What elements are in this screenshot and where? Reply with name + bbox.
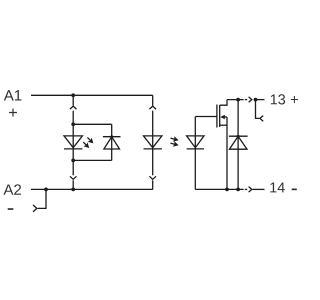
junction dot A2/left branch	[71, 188, 75, 192]
plug contact chevron (A2 jumper)	[33, 205, 37, 212]
LED indicator triangle	[144, 136, 162, 148]
wire A1 horizontal	[31, 94, 153, 96]
MOSFET body link	[225, 116, 228, 118]
male pin dash 13	[245, 99, 247, 101]
diode reverse-protection cathode bar	[103, 136, 121, 138]
junction dot LED top	[71, 122, 75, 126]
dot diode apex	[110, 135, 113, 138]
polarity label + (A1)	[9, 109, 17, 117]
wire terminal 14 stub	[252, 188, 264, 190]
plug contact chevron (mid branch top)	[149, 106, 156, 109]
terminal label A2	[3, 184, 21, 194]
junction dot LED bottom	[71, 159, 75, 163]
photodiode triangle	[187, 136, 204, 148]
polarity label - (A2)	[8, 208, 14, 210]
plug contact chevron (left branch top)	[70, 106, 77, 109]
wire terminal 13 stub	[256, 99, 265, 101]
LED input emission arrow upper	[85, 135, 95, 145]
plug contact chevron (mid branch bottom)	[149, 176, 156, 179]
wire source down	[226, 117, 228, 189]
optocoupler light arrow upper	[170, 135, 180, 143]
junction dot A2 hook	[44, 188, 48, 192]
wire left branch middle	[72, 111, 74, 176]
wire parallel box top rail	[73, 123, 112, 125]
junction dot source/bottom rail	[225, 188, 229, 192]
wire A2 horizontal	[31, 188, 153, 190]
wire mid branch lower corner	[152, 180, 154, 189]
MOSFET drain lead	[220, 100, 227, 106]
junction dot diode/bottom rail	[236, 188, 240, 192]
photodiode branch vertical	[194, 117, 196, 190]
terminal label A1	[4, 90, 22, 100]
terminal label 14 -	[270, 182, 284, 192]
MOSFET source lead	[220, 124, 227, 126]
male pin dash 14	[245, 188, 247, 190]
plug contact chevron terminal 14	[249, 187, 252, 193]
plug contact chevron (left branch bottom)	[70, 176, 77, 179]
MOSFET channel bar	[219, 105, 221, 127]
photodiode cathode bar	[187, 148, 204, 150]
wire gate lead	[195, 116, 217, 118]
output diode branch vertical	[237, 100, 239, 190]
wire output bottom rail	[195, 188, 243, 190]
wire output top rail	[227, 99, 244, 101]
output diode triangle	[229, 136, 247, 149]
wire mid branch vertical	[152, 111, 154, 176]
wire left branch upper	[72, 95, 74, 105]
wire mid branch upper corner	[152, 95, 154, 105]
wire parallel box right side	[111, 124, 113, 160]
LED indicator cathode bar	[144, 148, 162, 150]
MOSFET gate bar	[216, 105, 218, 128]
junction dot node A1/left branch	[71, 93, 75, 97]
plug contact chevron (13 jumper)	[260, 116, 263, 122]
output diode cathode bar	[229, 135, 248, 137]
LED input cathode bar	[64, 148, 82, 150]
wire jumper stub 13	[256, 100, 260, 119]
junction dot top rail/diode	[236, 98, 240, 102]
dot output diode apex	[237, 135, 240, 138]
wire A2 jumper stub	[38, 189, 46, 208]
wire parallel box bottom rail	[73, 159, 112, 161]
terminal label 13 +	[271, 94, 285, 104]
junction dot terminal 13	[254, 98, 258, 102]
wire left branch lower	[72, 180, 74, 189]
plug contact chevron terminal 13	[249, 97, 252, 102]
LED input emission arrow lower	[81, 140, 91, 150]
optocoupler light arrow lower	[170, 140, 180, 148]
MOSFET body arrow	[220, 115, 225, 119]
LED input (left) triangle	[64, 136, 82, 148]
diode reverse-protection triangle	[104, 137, 120, 149]
